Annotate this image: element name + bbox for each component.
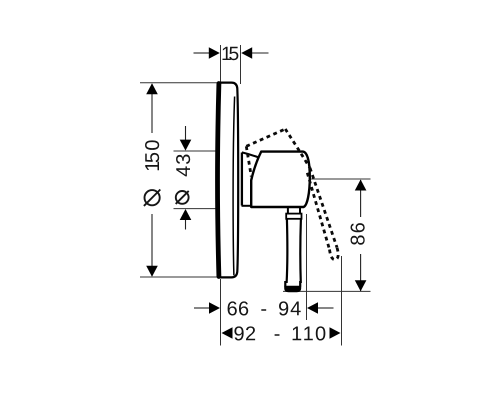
dashed roof left (246, 129, 285, 146)
ext line 15 left (220, 45, 222, 83)
dim text 43 (rotated) (176, 155, 190, 177)
arrow D43 upper (180, 140, 192, 151)
arrow 66-94 right (307, 302, 318, 314)
ext line D150 bottom (140, 276, 218, 278)
arrow 86 top (355, 180, 367, 191)
adapter left edge (241, 153, 243, 206)
adapter top edge (242, 152, 259, 157)
lever collar (286, 214, 301, 219)
dim line 66-94 (194, 307, 210, 309)
escutcheon plate inner line (233, 97, 235, 276)
handle body (251, 152, 310, 207)
dim text 86 (rotated) (351, 223, 365, 245)
arrow 92-110 right (330, 327, 341, 339)
lever neck (287, 207, 289, 214)
escutcheon plate front face (thick) (218, 84, 219, 277)
arrow D43 lower (180, 209, 192, 220)
adapter bottom edge (242, 205, 252, 207)
dashed lever right line (310, 168, 337, 248)
dim line 86 (360, 180, 362, 217)
dashed lever tip (330, 248, 339, 260)
dim text 92 - 110 (234, 326, 325, 340)
dim line D43 (185, 126, 187, 141)
arrow 15 right (241, 47, 252, 59)
arrow 92-110 left (222, 327, 233, 339)
ext line 66-94 right (306, 214, 308, 320)
arrow 15 left (209, 47, 220, 59)
ext line 86 bottom (283, 290, 371, 292)
ext line D150 top (140, 82, 217, 84)
ext line bottom left shared (220, 279, 222, 346)
dashed handle alternate position (246, 129, 338, 260)
arrow D150 bottom (146, 266, 158, 277)
ext line 86 top (311, 178, 371, 180)
arrow 86 bottom (355, 280, 367, 291)
dim text 66 - 94 (228, 301, 301, 315)
ext line D43 bottom (174, 208, 217, 210)
dashed roof right (285, 129, 310, 168)
diameter symbol for 43 (176, 191, 189, 204)
escutcheon plate outline (219, 83, 238, 278)
lever shaft (286, 219, 289, 283)
ext line 15 right (240, 45, 242, 84)
dashed lever left line (307, 173, 329, 250)
ext line 92-110 right (341, 256, 343, 346)
dim line D150 (151, 84, 153, 133)
dashed body left edge (246, 146, 251, 176)
diameter symbol for 150 (144, 190, 160, 206)
arrowheads (146, 47, 366, 339)
extension lines (thin) (140, 45, 371, 346)
dim text 150 (rotated) (145, 140, 159, 170)
dim line 15 (194, 52, 210, 54)
arrow 66-94 left (209, 302, 220, 314)
dim text 15 (223, 47, 239, 60)
ext line D43 top (174, 150, 217, 152)
arrow D150 top (146, 83, 158, 94)
dimension lines (152, 53, 361, 308)
lever bottom cap (284, 286, 301, 293)
